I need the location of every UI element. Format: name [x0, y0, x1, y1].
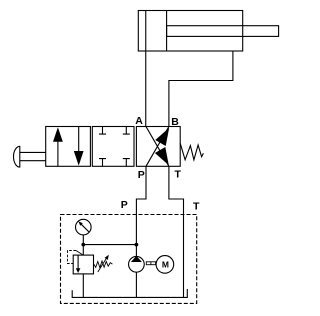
valve V1 center position box — [92, 127, 134, 167]
svg-text:P: P — [138, 169, 145, 181]
svg-text:T: T — [193, 200, 200, 212]
cylinder C1 rod — [167, 26, 279, 37]
valve V1 crossed arrow P to B — [146, 127, 169, 167]
valve V1 right position box — [136, 127, 180, 167]
wire relief valve to tank — [82, 274, 84, 298]
tank reservoir — [72, 289, 187, 297]
valve V1 left position up-flow arrow — [53, 127, 63, 166]
junction dot pump line — [135, 243, 139, 247]
valve V1 left position down-flow arrow — [74, 127, 84, 166]
wire cylinder rod-end to valve port B — [169, 51, 233, 127]
valve V1 left position box — [46, 127, 91, 167]
junction dot gauge line — [81, 243, 85, 247]
valve V1 crossed arrow A to T — [146, 127, 169, 167]
wire valve T to tank — [169, 166, 184, 297]
pump-motor shaft coupling — [146, 262, 155, 265]
wire pump suction to tank — [135, 272, 137, 297]
cylinder C1 body — [138, 11, 242, 52]
wire cylinder cap-end to valve port A — [145, 51, 147, 127]
svg-text:P: P — [121, 199, 128, 211]
wire gauge branch to pump line — [83, 244, 136, 246]
valve V1 center closed port stubs — [99, 127, 130, 167]
cylinder C1 piston — [146, 11, 167, 52]
svg-text:T: T — [174, 169, 181, 181]
svg-text:B: B — [171, 116, 179, 128]
svg-text:A: A — [135, 115, 143, 127]
relief valve pilot line (dashed) — [68, 251, 77, 264]
wire valve P to power unit — [136, 166, 146, 256]
valve V1 return spring — [180, 143, 203, 160]
pressure gauge G1 — [76, 219, 92, 244]
relief valve spring — [94, 261, 113, 268]
power unit enclosure (dashed) — [61, 215, 197, 304]
relief valve RV1 — [73, 245, 93, 274]
svg-text:M: M — [162, 260, 169, 270]
valve V1 manual knob actuator — [13, 146, 45, 167]
electric motor M1 — [156, 256, 174, 274]
relief valve adjustment arrow — [98, 255, 109, 272]
pump PU1 — [129, 256, 145, 272]
